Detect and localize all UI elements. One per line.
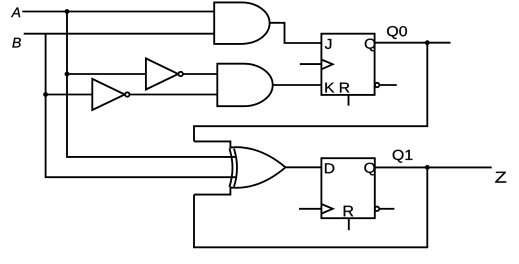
junction dot: A branch to NOT1 input (65, 72, 70, 77)
wire: NOT2 input (46, 94, 93, 96)
wire: A branch vertical down to XOR input row (67, 12, 236, 157)
junction dot: Q0 feedback (425, 40, 430, 45)
wire: NOT1 input (67, 73, 146, 75)
junction dot: Q1 feedback (425, 165, 430, 170)
wire: Q1 output to Z (375, 166, 492, 168)
wire: AND1 output to JK J input (270, 23, 322, 43)
wire: XOR top input row (194, 141, 230, 148)
wire: XOR output to D input (286, 166, 322, 168)
JK flip-flop U1 box (321, 34, 374, 95)
junction dot: B branch to NOT2 input (43, 92, 48, 97)
pin label J (325, 39, 331, 49)
wire: D clock stub (299, 208, 321, 210)
Qbar bubble (D FF) (375, 207, 379, 211)
wire: Q0 output (375, 42, 451, 44)
inverter NOT1 (upper) (146, 58, 183, 89)
wire: XOR bottom input row (194, 187, 230, 195)
XOR gate (229, 147, 285, 188)
clock triangle (D FF) (321, 204, 332, 214)
wire: JK R stub (348, 95, 350, 106)
wire: D R stub (348, 218, 350, 230)
wire: input A horizontal (22, 11, 214, 13)
AND gate AND2 (middle) (217, 64, 272, 106)
D flip-flop U2 box (321, 158, 374, 218)
wire: JK Qbar stub (379, 84, 397, 86)
wire: JK clock stub (300, 63, 322, 65)
output label Z (495, 172, 506, 183)
pin label R (D FF) (344, 206, 354, 217)
wire: Q1 feedback loop (194, 167, 427, 247)
wire: input B horizontal (24, 33, 215, 35)
clock triangle (JK) (321, 60, 332, 70)
wire: AND2 output to JK K input (273, 84, 322, 86)
pin label R (JK) (340, 83, 349, 93)
wire: D Qbar stub (379, 208, 394, 210)
Qbar bubble (JK) (375, 83, 379, 87)
net label Q0 (387, 26, 407, 39)
wire: Q0 feedback to XOR top (194, 43, 427, 142)
wire: B branch vertical down to XOR input row (46, 34, 236, 178)
pin label Q (JK) (365, 39, 376, 52)
pin label Q (D FF) (364, 163, 375, 176)
input label A (11, 7, 20, 17)
input label B (12, 38, 21, 48)
pin label D (325, 163, 334, 173)
junction dot: A line to branch (65, 9, 70, 14)
wire: NOT1 output to AND2 top input (183, 73, 217, 75)
inverter NOT2 (lower) (92, 79, 129, 110)
net label Q1 (393, 150, 413, 163)
pin label K (325, 83, 334, 93)
wire: NOT2 output to AND2 bottom input (130, 94, 218, 96)
AND gate AND1 (top) (214, 2, 269, 44)
